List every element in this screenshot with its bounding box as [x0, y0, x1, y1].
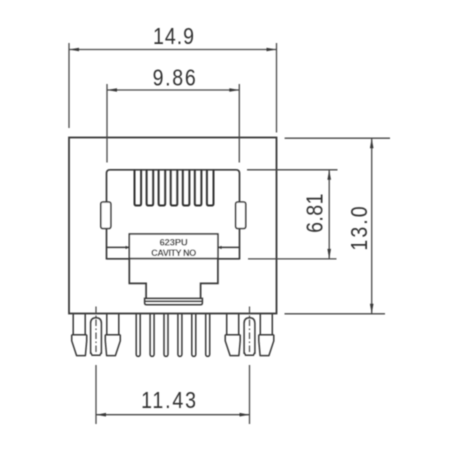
dimension 11.43	[96, 365, 250, 424]
left ledge line with wedge	[107, 246, 130, 248]
latch slot bottom bar	[145, 298, 203, 304]
dim 14.9 left arrowhead	[69, 48, 79, 52]
svg-text:13.0: 13.0	[347, 204, 373, 250]
dim 6.81 top arrowhead	[327, 170, 331, 180]
left extension line	[95, 365, 97, 424]
dimension 6.81	[247, 170, 338, 259]
dim 13.0 bottom arrowhead	[370, 304, 374, 314]
right ledge line with wedge	[218, 246, 240, 248]
svg-text:623PU: 623PU	[159, 238, 187, 249]
dimension line	[371, 138, 373, 314]
bottom extension line	[248, 258, 337, 260]
bottom extension line	[285, 313, 386, 315]
right mounting post	[225, 314, 274, 356]
left wing strip	[73, 314, 85, 335]
left side latch window	[101, 202, 111, 229]
dim 6.81 bottom arrowhead	[327, 249, 331, 259]
right wing foot	[259, 335, 274, 356]
dimension line	[96, 414, 250, 416]
dim 9.86 left arrowhead	[107, 88, 117, 92]
right side latch window	[236, 202, 246, 229]
dim 11.43 right arrowhead	[240, 413, 250, 417]
contact pins (6)	[136, 314, 210, 356]
svg-text:6.81: 6.81	[302, 193, 328, 233]
left lower ledge line	[107, 258, 130, 260]
contact slot comb (7 slots)	[135, 170, 214, 206]
left post centerline	[95, 307, 97, 356]
left wing strip	[227, 314, 239, 335]
right wing foot	[105, 335, 120, 356]
dim 11.43 left arrowhead	[96, 413, 106, 417]
right extension line	[238, 84, 240, 163]
left mounting post	[72, 314, 121, 356]
right lower ledge line	[218, 258, 240, 260]
dimension line	[328, 170, 330, 259]
top extension line	[285, 137, 390, 139]
center prong	[91, 318, 102, 356]
svg-text:CAVITY NO: CAVITY NO	[151, 248, 196, 258]
dim 13.0 top arrowhead	[370, 138, 374, 148]
center prong	[244, 318, 255, 356]
dim 14.9 right arrowhead	[267, 48, 277, 52]
left wing foot	[225, 335, 240, 356]
jack face opening outline	[107, 170, 240, 260]
dimension line	[69, 49, 277, 51]
right wing strip	[260, 314, 272, 335]
cavity label plate	[129, 234, 218, 259]
svg-text:11.43: 11.43	[141, 388, 198, 414]
dimension 9.86	[107, 84, 239, 163]
left wing foot	[72, 335, 87, 356]
dim 9.86 right arrowhead	[229, 88, 239, 92]
right wing strip	[107, 314, 119, 335]
right extension line	[249, 365, 251, 424]
top extension line	[247, 169, 338, 171]
dimension 13.0	[285, 138, 391, 314]
lower face step outline	[129, 259, 218, 299]
right extension line	[276, 43, 278, 133]
svg-text:9.86: 9.86	[153, 65, 198, 91]
latch slot bar inner line	[145, 300, 203, 302]
right post centerline	[249, 307, 251, 356]
svg-text:14.9: 14.9	[153, 24, 195, 50]
connector body outline	[69, 138, 277, 314]
dimension line	[107, 89, 239, 91]
left extension line	[106, 84, 108, 163]
left extension line	[68, 43, 70, 128]
dimension 14.9	[69, 43, 277, 133]
